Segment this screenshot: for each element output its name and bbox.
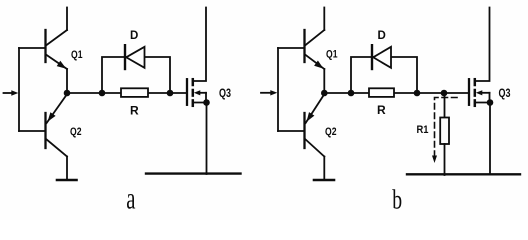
wire: R1 top (b) <box>444 93 446 118</box>
input arrow (b) <box>261 92 271 94</box>
resistor R (a) <box>121 88 148 97</box>
junction dot node-emitter (b) <box>321 90 328 97</box>
wire: Q1 emitter to node (a) <box>66 69 68 93</box>
diode D (a) <box>125 45 145 69</box>
transistor Q1 <box>46 30 68 69</box>
source rail (b) <box>407 173 520 175</box>
svg-text:Q2: Q2 <box>325 126 337 138</box>
source rail (a) <box>146 172 241 174</box>
svg-text:R1: R1 <box>417 124 429 136</box>
junction dot R1 tap (b) <box>441 90 448 97</box>
diode D (a) branch wires <box>102 57 170 93</box>
wire: Q2 base (b) <box>278 130 304 132</box>
transistor Q1 (b) <box>305 30 325 69</box>
ground (b) <box>314 179 334 182</box>
junction dot diode left (b) <box>348 90 355 97</box>
diode D (b) branch wires <box>351 57 417 93</box>
junction dot diode left (a) <box>99 90 106 97</box>
wire: input base bus (b) <box>277 48 279 131</box>
svg-text:Q3: Q3 <box>499 88 511 100</box>
resistor R1 (b) <box>440 118 449 145</box>
svg-text:Q1: Q1 <box>326 49 338 61</box>
svg-text:D: D <box>130 30 138 42</box>
transistor Q2 <box>46 95 68 157</box>
svg-text:Q2: Q2 <box>70 126 82 138</box>
wire: Q1 base (b) <box>278 47 304 49</box>
svg-text:Q3: Q3 <box>219 88 231 100</box>
wire: gate node line (b) <box>324 92 469 94</box>
svg-text:b: b <box>392 186 402 216</box>
transistor Q2 (b) <box>305 95 325 157</box>
wire: Q1 base (a) <box>19 47 45 49</box>
input arrow (a) <box>4 92 13 94</box>
diode D (b) <box>372 45 391 69</box>
wire: Q1 collector to supply (a) <box>66 8 68 31</box>
mosfet Q3 (a) <box>187 8 210 175</box>
junction dot diode right (b) <box>414 90 421 97</box>
wire: Q1 emitter to node (b) <box>323 69 325 93</box>
wire: Q2 collector to ground (a) <box>66 157 68 179</box>
wire: Q1 collector to supply (b) <box>323 8 325 31</box>
junction dot diode right (a) <box>167 90 174 97</box>
wire: Q2 base (a) <box>19 130 45 132</box>
junction dot node-emitter (a) <box>64 90 71 97</box>
svg-text:R: R <box>130 104 139 118</box>
wire: R1 bottom (b) <box>444 144 446 175</box>
dashed discharge current path (b) <box>435 98 458 156</box>
wire: Q2 collector to ground (b) <box>323 157 325 179</box>
svg-text:Q1: Q1 <box>71 49 83 61</box>
svg-text:D: D <box>378 30 386 42</box>
resistor R (b) <box>369 88 394 97</box>
svg-text:a: a <box>126 180 135 215</box>
mosfet Q3 (b) <box>469 8 493 175</box>
svg-text:R: R <box>377 103 386 117</box>
wire: gate node line (a) <box>67 92 187 94</box>
wire: input base bus (a) <box>18 48 20 131</box>
ground (a) <box>57 179 77 182</box>
